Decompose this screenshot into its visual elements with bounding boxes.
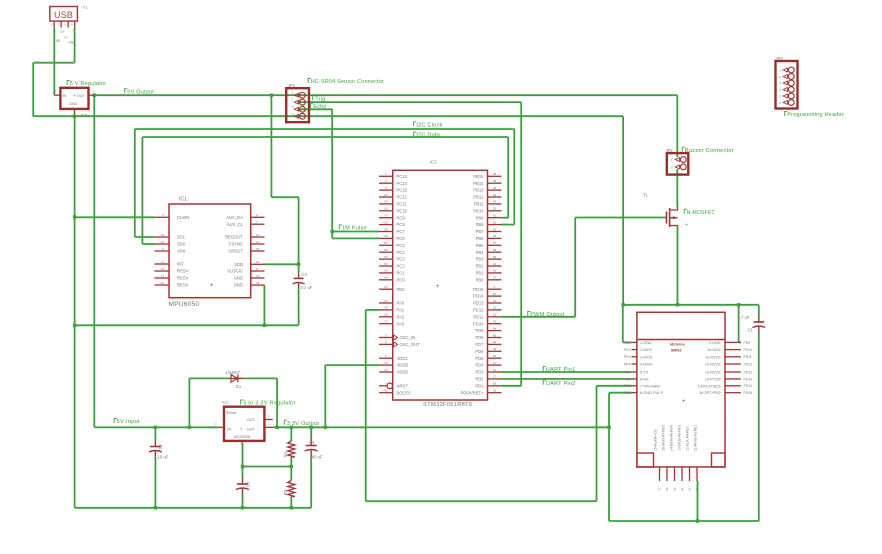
svg-text:PC12: PC12 — [397, 195, 408, 200]
svg-text:38: 38 — [384, 220, 388, 224]
svg-text:+: + — [73, 93, 76, 98]
svg-text:OUT: OUT — [247, 426, 256, 431]
svg-text:PD13: PD13 — [473, 301, 484, 306]
svg-text:PC9: PC9 — [397, 215, 406, 220]
svg-text:PC0: PC0 — [397, 277, 406, 282]
svg-text:Echo: Echo — [313, 104, 326, 110]
svg-text:6-RX: 6-RX — [640, 377, 649, 381]
svg-text:PC15: PC15 — [397, 188, 408, 193]
svg-text:24: 24 — [384, 193, 388, 197]
svg-text:21: 21 — [493, 299, 497, 303]
svg-text:17: 17 — [658, 487, 662, 491]
svg-text:IN: IN — [63, 94, 67, 98]
svg-text:30: 30 — [493, 186, 497, 190]
svg-text:41: 41 — [493, 269, 497, 273]
svg-text:34: 34 — [493, 200, 497, 204]
svg-text:63: 63 — [493, 227, 497, 231]
svg-text:45: 45 — [493, 333, 497, 337]
svg-text:PD15: PD15 — [473, 287, 484, 292]
svg-text:10: 10 — [256, 233, 260, 237]
svg-text:5Vout: 5Vout — [226, 410, 237, 415]
svg-text:28: 28 — [493, 172, 497, 176]
svg-text:1M Pulse: 1M Pulse — [342, 225, 367, 231]
svg-text:RESV: RESV — [177, 283, 189, 288]
svg-text:VDD: VDD — [234, 262, 243, 267]
svg-text:UART Pin1: UART Pin1 — [546, 367, 576, 373]
svg-text:35: 35 — [493, 207, 497, 211]
svg-text:PB14: PB14 — [473, 181, 484, 186]
svg-text:AUX_DA: AUX_DA — [226, 215, 243, 220]
svg-text:PD14: PD14 — [473, 294, 484, 299]
svg-text:PD4: PD4 — [624, 362, 631, 366]
svg-text:VDD1: VDD1 — [397, 356, 409, 361]
svg-text:R2: R2 — [283, 489, 288, 495]
svg-text:PA1: PA1 — [397, 308, 405, 313]
svg-text:21: 21 — [688, 487, 692, 491]
svg-text:13: 13 — [256, 260, 260, 264]
svg-text:4-DIO0: 4-DIO0 — [640, 363, 652, 367]
svg-text:5V Input: 5V Input — [117, 419, 140, 425]
svg-text:8MHZ: 8MHZ — [671, 347, 682, 352]
svg-text:OUT: OUT — [77, 94, 86, 98]
svg-text:VLOGIC: VLOGIC — [227, 269, 243, 274]
svg-text:GND: GND — [69, 102, 78, 106]
svg-text:59: 59 — [493, 255, 497, 259]
svg-text:PD14: PD14 — [744, 377, 753, 381]
svg-text:10-VDD: 10-VDD — [707, 348, 721, 352]
svg-text:Trig: Trig — [315, 96, 325, 102]
svg-text:PD9: PD9 — [475, 328, 484, 333]
svg-text:PB13: PB13 — [473, 188, 484, 193]
svg-text:T1: T1 — [643, 193, 649, 198]
svg-text:UART Pin2: UART Pin2 — [546, 381, 576, 387]
svg-text:GND: GND — [234, 283, 243, 288]
svg-text:PC1: PC1 — [397, 271, 406, 276]
svg-text:56: 56 — [384, 276, 388, 280]
svg-text:13: 13 — [384, 361, 388, 365]
svg-text:44: 44 — [493, 326, 497, 330]
svg-text:PD15: PD15 — [744, 384, 753, 388]
svg-text:GN: GN — [69, 41, 74, 45]
svg-text:PD3: PD3 — [624, 355, 631, 359]
svg-text:PD0/VREF+: PD0/VREF+ — [461, 390, 484, 395]
svg-text:CLKIN: CLKIN — [177, 215, 189, 220]
svg-text:AD0: AD0 — [177, 249, 186, 254]
svg-text:PC10: PC10 — [397, 208, 408, 213]
svg-text:PD6: PD6 — [624, 377, 631, 381]
svg-text:PD11: PD11 — [744, 355, 752, 359]
svg-text:4.7 uF: 4.7 uF — [738, 315, 750, 320]
svg-text:61: 61 — [493, 214, 497, 218]
svg-text:C4: C4 — [309, 440, 315, 445]
svg-text:17: 17 — [384, 320, 388, 324]
svg-text:MPU6050: MPU6050 — [169, 301, 200, 308]
svg-text:5-TX: 5-TX — [640, 371, 649, 375]
svg-text:PC6: PC6 — [397, 236, 406, 241]
svg-text:10 uF: 10 uF — [158, 455, 169, 460]
svg-text:INT: INT — [177, 262, 184, 267]
svg-text:43: 43 — [493, 320, 497, 324]
svg-text:12-CLK-A4-PE2: 12-CLK-A4-PE2 — [686, 427, 690, 451]
svg-text:58: 58 — [493, 248, 497, 252]
svg-text:20: 20 — [384, 285, 388, 289]
svg-text:57: 57 — [493, 241, 497, 245]
svg-text:PC3: PC3 — [397, 257, 406, 262]
svg-text:JP3: JP3 — [776, 56, 784, 61]
svg-text:PC4: PC4 — [397, 250, 406, 255]
svg-text:PD8: PD8 — [624, 391, 631, 395]
svg-text:PB7: PB7 — [476, 229, 485, 234]
svg-text:51: 51 — [384, 241, 388, 245]
svg-text:12: 12 — [161, 260, 165, 264]
svg-text:24: 24 — [161, 240, 165, 244]
svg-text:PD9: PD9 — [744, 341, 751, 345]
svg-text:PD8: PD8 — [475, 335, 484, 340]
svg-text:23: 23 — [493, 313, 497, 317]
svg-text:ADJ/GND: ADJ/GND — [234, 435, 251, 439]
svg-text:VB: VB — [56, 39, 60, 43]
svg-text:22: 22 — [695, 487, 699, 491]
svg-text:12: 12 — [384, 368, 388, 372]
svg-text:PD10: PD10 — [473, 321, 484, 326]
svg-text:20: 20 — [680, 487, 684, 491]
svg-text:PD5: PD5 — [624, 370, 631, 374]
svg-text:15: 15 — [256, 274, 260, 278]
svg-text:10: 10 — [493, 292, 497, 296]
svg-text:13-R3VD: 13-R3VD — [705, 371, 721, 375]
svg-text:18: 18 — [256, 281, 260, 285]
svg-text:14: 14 — [384, 299, 388, 303]
svg-text:OSC_OUT: OSC_OUT — [400, 342, 421, 347]
svg-text:PC2: PC2 — [397, 264, 406, 269]
svg-text:C5: C5 — [246, 481, 251, 487]
svg-text:16-3PT-PRD: 16-3PT-PRD — [699, 391, 721, 395]
svg-text:PD16: PD16 — [744, 391, 753, 395]
svg-text:14-DIO4-A6-PE4: 14-DIO4-A6-PE4 — [670, 425, 674, 451]
svg-text:PB2: PB2 — [476, 264, 485, 269]
svg-text:33: 33 — [493, 193, 497, 197]
svg-text:PC11: PC11 — [397, 202, 408, 207]
svg-text:15-R13-PE05: 15-R13-PE05 — [697, 384, 720, 388]
svg-text:25: 25 — [384, 200, 388, 204]
svg-text:VSSD: VSSD — [397, 370, 408, 375]
svg-text:PB11: PB11 — [474, 202, 485, 207]
svg-text:IC2: IC2 — [222, 400, 229, 405]
svg-text:3-DIO3: 3-DIO3 — [640, 355, 652, 359]
svg-text:13: 13 — [161, 267, 165, 271]
svg-text:PB9: PB9 — [476, 215, 485, 220]
svg-text:PA0: PA0 — [397, 301, 405, 306]
svg-text:PB1: PB1 — [476, 271, 485, 276]
svg-text:17: 17 — [493, 375, 497, 379]
svg-text:PB8: PB8 — [476, 222, 485, 227]
svg-text:PD13: PD13 — [744, 370, 753, 374]
svg-text:NRST: NRST — [397, 383, 409, 388]
svg-text:PB10: PB10 — [473, 208, 484, 213]
svg-text:+: + — [436, 284, 440, 290]
svg-text:60: 60 — [384, 389, 388, 393]
svg-text:BOOT0: BOOT0 — [397, 390, 412, 395]
svg-text:62: 62 — [493, 220, 497, 224]
svg-text:+: + — [210, 283, 214, 289]
svg-text:PB3: PB3 — [476, 257, 485, 262]
svg-text:100 uF: 100 uF — [310, 455, 323, 460]
svg-text:49: 49 — [493, 347, 497, 351]
svg-text:1N4007: 1N4007 — [225, 370, 240, 375]
svg-text:PB12: PB12 — [473, 195, 484, 200]
svg-text:PD5: PD5 — [475, 356, 484, 361]
svg-text:46: 46 — [493, 340, 497, 344]
svg-text:19: 19 — [493, 389, 497, 393]
svg-text:RESV: RESV — [177, 276, 189, 281]
svg-text:16: 16 — [384, 313, 388, 317]
svg-text:PD2: PD2 — [624, 348, 631, 352]
svg-text:D+: D+ — [61, 30, 65, 34]
svg-text:PA2: PA2 — [397, 314, 405, 319]
svg-text:54: 54 — [384, 262, 388, 266]
svg-text:27: 27 — [493, 276, 497, 280]
svg-text:0.1 uF: 0.1 uF — [301, 285, 313, 290]
svg-text:USB: USB — [54, 10, 73, 20]
svg-text:5 V Regulator: 5 V Regulator — [70, 81, 107, 87]
svg-text:23: 23 — [161, 233, 165, 237]
svg-text:15: 15 — [384, 306, 388, 310]
svg-text:1-GND: 1-GND — [640, 341, 652, 345]
svg-text:PWM Output: PWM Output — [530, 312, 564, 318]
svg-text:PB2: PB2 — [397, 287, 406, 292]
svg-text:N-MOSFET: N-MOSFET — [687, 210, 715, 216]
svg-text:5V Output: 5V Output — [127, 89, 154, 95]
svg-text:55: 55 — [384, 269, 388, 273]
svg-text:5 to 3.3V Regulator: 5 to 3.3V Regulator — [243, 401, 295, 407]
svg-text:18: 18 — [665, 487, 669, 491]
svg-text:I2C Clock: I2C Clock — [416, 122, 442, 128]
svg-text:26: 26 — [384, 207, 388, 211]
svg-text:PC5: PC5 — [397, 243, 406, 248]
svg-text:REGOUT: REGOUT — [225, 235, 243, 240]
svg-text:OSC_IN: OSC_IN — [400, 335, 416, 340]
svg-text:VDDD: VDDD — [397, 363, 409, 368]
svg-text:12-R3VD: 12-R3VD — [705, 363, 721, 367]
svg-text:+: + — [685, 223, 688, 229]
svg-text:22: 22 — [161, 281, 165, 285]
svg-text:R1: R1 — [283, 451, 288, 457]
svg-text:50: 50 — [493, 354, 497, 358]
svg-text:11-MISO-A3-PE1: 11-MISO-A3-PE1 — [694, 425, 698, 451]
svg-text:CPOUT: CPOUT — [228, 249, 243, 254]
svg-text:PD3: PD3 — [475, 370, 484, 375]
svg-text:PB0: PB0 — [476, 277, 485, 282]
svg-text:JP1: JP1 — [288, 83, 296, 88]
svg-text:PD1: PD1 — [624, 341, 631, 345]
svg-text:PC13: PC13 — [397, 174, 408, 179]
svg-text:40: 40 — [384, 234, 388, 238]
svg-text:D-: D- — [65, 36, 68, 40]
svg-text:16: 16 — [493, 368, 497, 372]
svg-text:IC2: IC2 — [430, 160, 437, 165]
svg-text:PD2: PD2 — [475, 377, 484, 382]
svg-text:64: 64 — [493, 234, 497, 238]
svg-text:PD7: PD7 — [475, 342, 484, 347]
svg-text:FSYNC: FSYNC — [229, 242, 243, 247]
svg-text:X1: X1 — [83, 5, 89, 10]
svg-text:Programming Header: Programming Header — [787, 112, 844, 118]
svg-text:Buzzer Connector: Buzzer Connector — [685, 148, 734, 154]
svg-text:52: 52 — [384, 248, 388, 252]
svg-text:C2: C2 — [158, 443, 163, 449]
svg-text:HC-SR04 Sensor Connector: HC-SR04 Sensor Connector — [311, 79, 384, 85]
svg-text:Moteino: Moteino — [670, 341, 686, 346]
svg-text:PB5: PB5 — [476, 243, 485, 248]
svg-text:7-VIN-RAW: 7-VIN-RAW — [640, 384, 660, 388]
svg-text:15-FLASH-CS: 15-FLASH-CS — [654, 429, 658, 451]
svg-text:PD11: PD11 — [473, 314, 484, 319]
svg-text:C3: C3 — [302, 272, 308, 277]
svg-text:SDA: SDA — [177, 242, 186, 247]
svg-text:OUT: OUT — [247, 417, 256, 422]
svg-text:PB15: PB15 — [473, 174, 484, 179]
svg-text:RESV: RESV — [177, 269, 189, 274]
svg-text:29: 29 — [493, 179, 497, 183]
svg-text:+: + — [682, 399, 686, 405]
svg-text:11-R3VD: 11-R3VD — [705, 355, 721, 359]
svg-text:14-PTCP: 14-PTCP — [705, 377, 721, 381]
svg-text:11: 11 — [493, 361, 496, 365]
svg-text:IC3: IC3 — [81, 113, 88, 118]
svg-text:PD1: PD1 — [475, 383, 484, 388]
svg-text:37: 37 — [384, 214, 388, 218]
svg-text:42: 42 — [493, 262, 497, 266]
svg-text:53: 53 — [384, 255, 388, 259]
svg-text:I2C Data: I2C Data — [416, 133, 441, 139]
svg-text:SCL: SCL — [177, 235, 186, 240]
svg-text:PA3: PA3 — [397, 321, 405, 326]
svg-text:19: 19 — [673, 487, 677, 491]
svg-text:STM32F051R8T6: STM32F051R8T6 — [423, 402, 472, 408]
svg-text:JP2: JP2 — [666, 148, 674, 153]
svg-text:PD12: PD12 — [473, 308, 484, 313]
svg-text:20: 20 — [256, 247, 260, 251]
svg-text:39: 39 — [384, 227, 388, 231]
svg-text:GND: GND — [234, 276, 243, 281]
svg-text:PD10: PD10 — [744, 348, 753, 352]
svg-text:PD12: PD12 — [744, 362, 753, 366]
svg-text:PD7: PD7 — [624, 384, 631, 388]
svg-text:IC1: IC1 — [179, 197, 187, 203]
svg-text:11: 11 — [161, 274, 164, 278]
svg-text:9-GND: 9-GND — [709, 341, 721, 345]
svg-text:PB4: PB4 — [476, 250, 485, 255]
svg-text:13-DIO3-A5-PE3: 13-DIO3-A5-PE3 — [678, 425, 682, 451]
svg-text:PC14: PC14 — [397, 181, 408, 186]
svg-text:PD4: PD4 — [475, 363, 484, 368]
svg-text:18: 18 — [493, 382, 497, 386]
svg-text:11: 11 — [256, 240, 259, 244]
svg-text:AUX_CL: AUX_CL — [227, 222, 244, 227]
svg-text:+: + — [240, 426, 243, 431]
svg-text:D1: D1 — [236, 384, 242, 389]
svg-text:C1: C1 — [748, 328, 754, 333]
svg-text:PD6: PD6 — [475, 349, 484, 354]
svg-text:8-GND-PULP: 8-GND-PULP — [640, 391, 663, 395]
svg-text:PC7: PC7 — [397, 229, 406, 234]
svg-text:3.3V Output: 3.3V Output — [287, 421, 319, 427]
svg-text:22: 22 — [493, 306, 497, 310]
svg-text:PC8: PC8 — [397, 222, 406, 227]
svg-text:16-DIO5-A7-PE5: 16-DIO5-A7-PE5 — [662, 425, 666, 451]
svg-text:2-DIO2: 2-DIO2 — [640, 348, 652, 352]
svg-text:IN: IN — [227, 426, 231, 431]
svg-text:PB6: PB6 — [476, 236, 485, 241]
